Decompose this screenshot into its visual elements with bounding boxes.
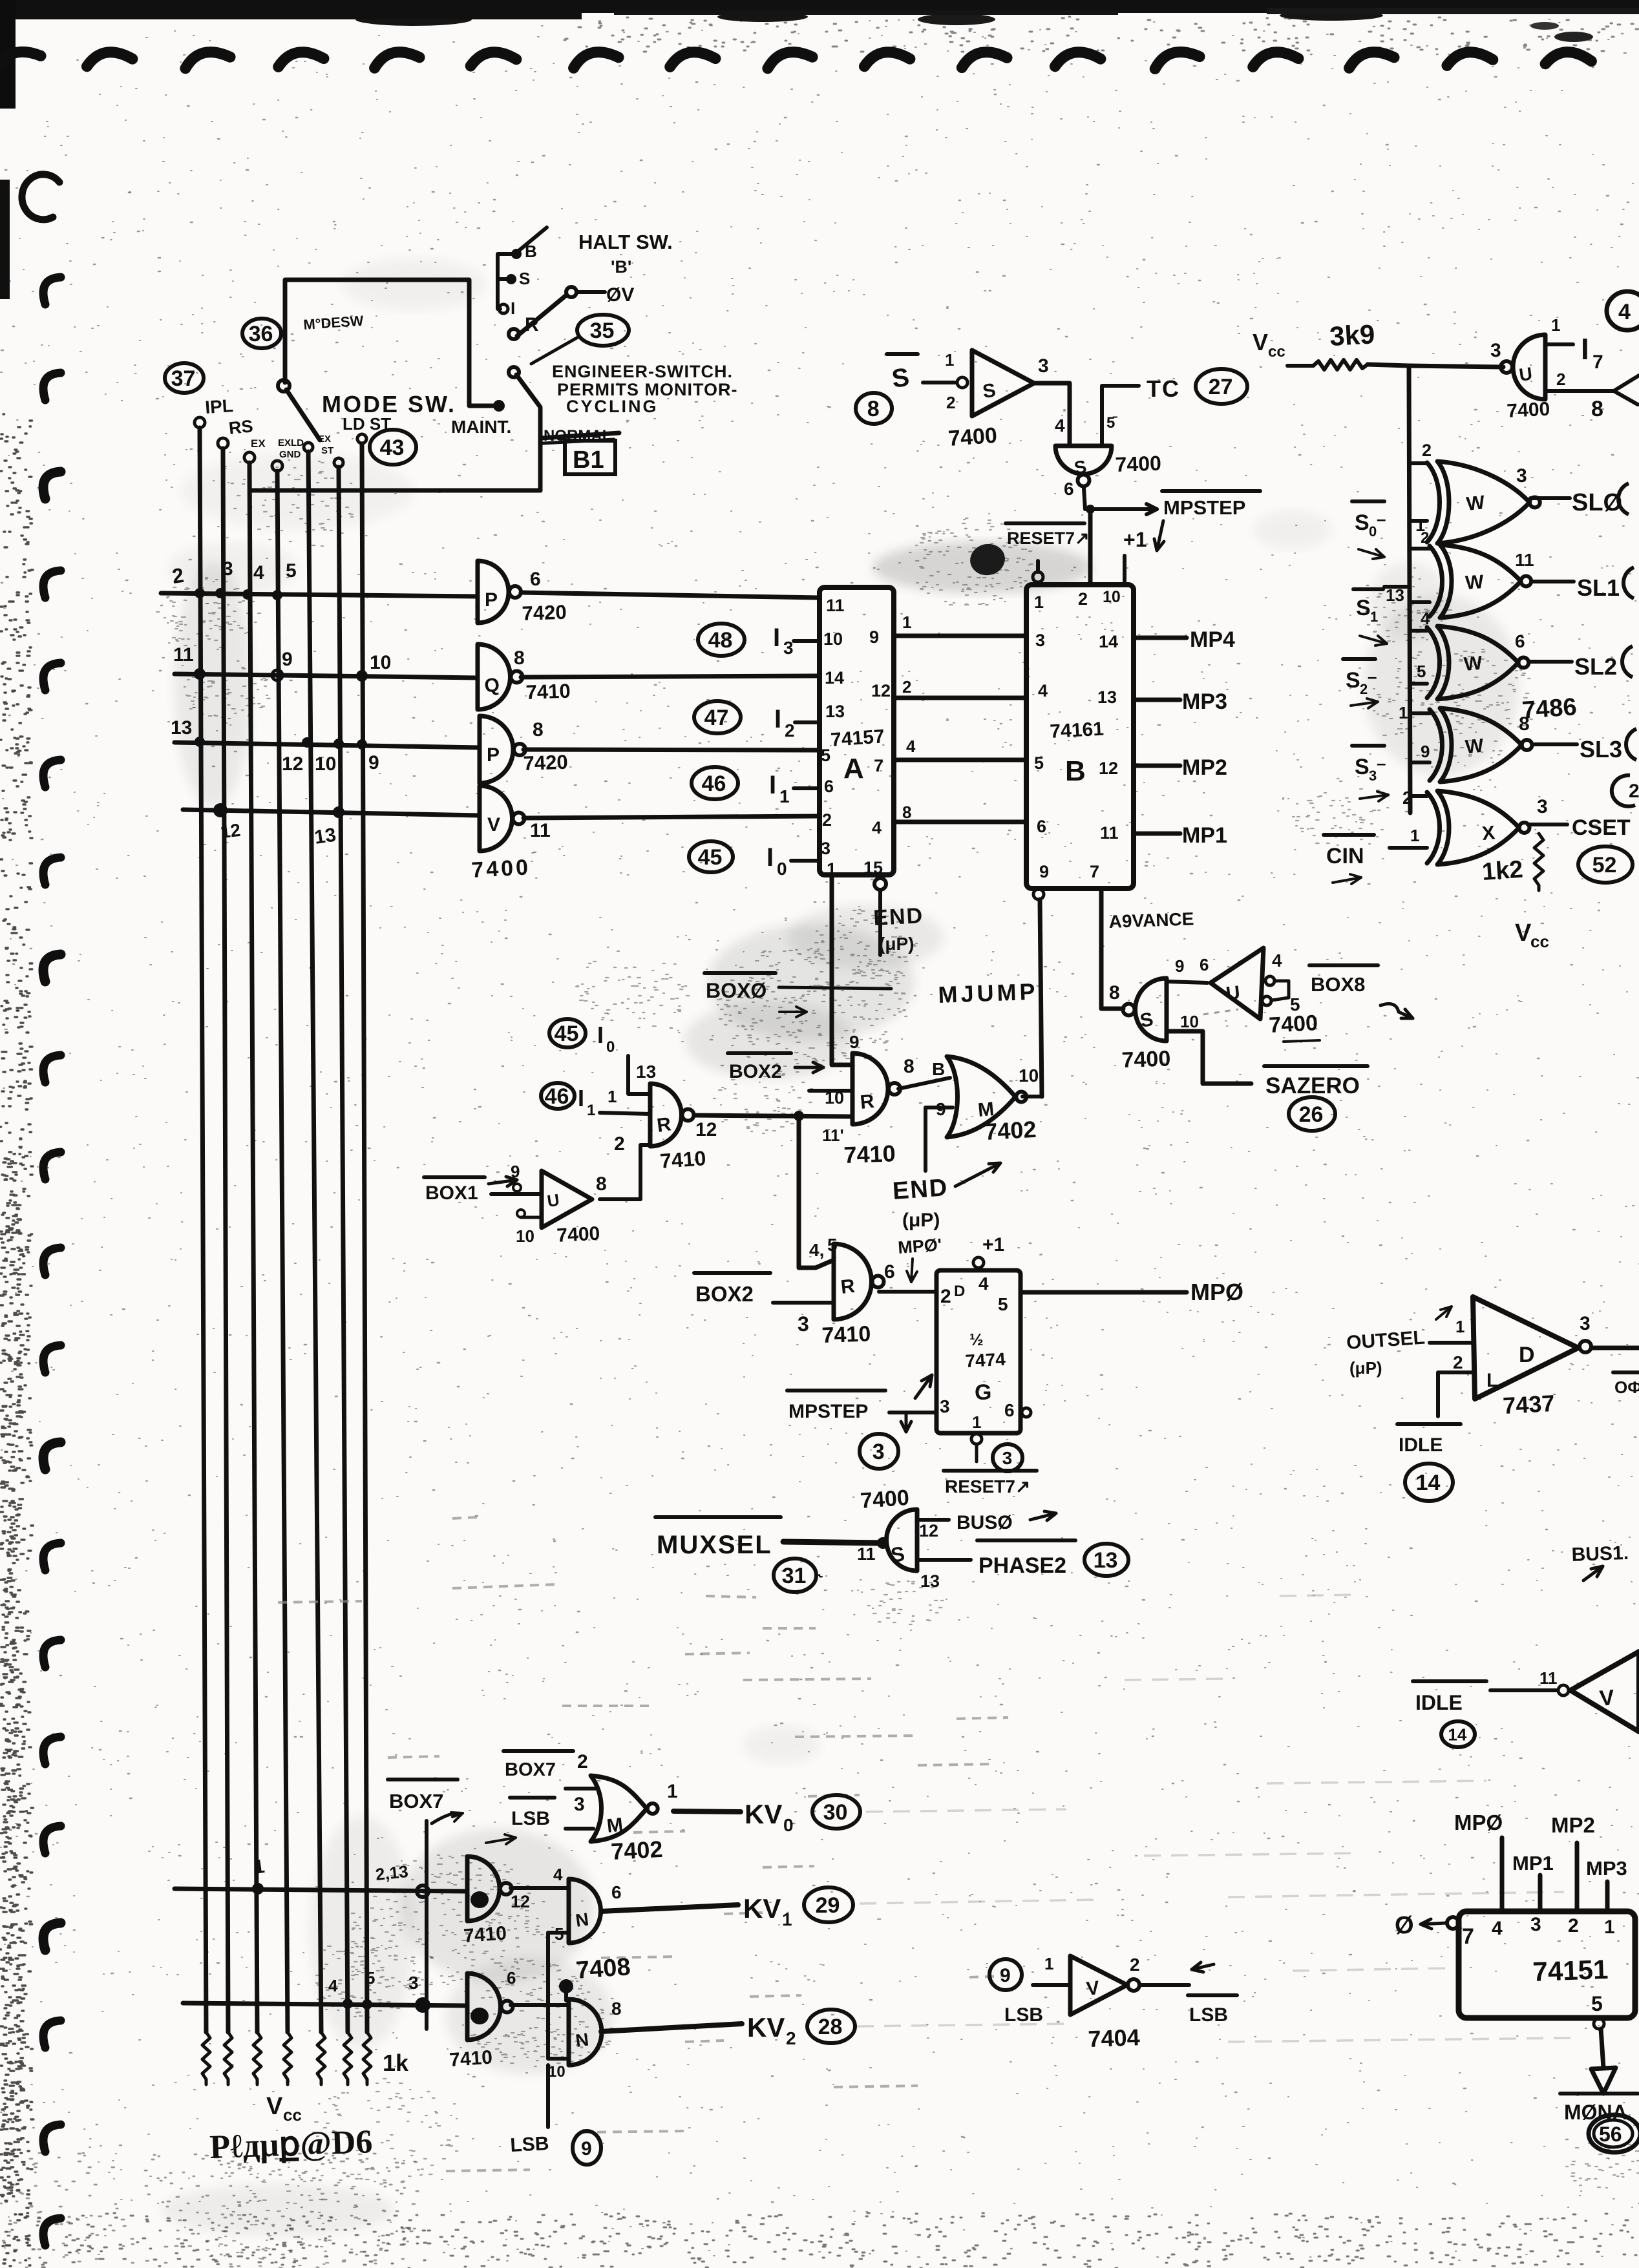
wire to 0V	[576, 290, 605, 294]
svg-text:47: 47	[704, 706, 729, 730]
svg-text:2: 2	[822, 810, 832, 830]
svg-text:9: 9	[511, 1162, 520, 1181]
wire BOX0	[779, 987, 891, 989]
svg-text:43: 43	[380, 436, 405, 460]
svg-text:5: 5	[366, 1968, 375, 1988]
svg-text:2: 2	[902, 677, 911, 697]
label RESET7 top	[1006, 521, 1084, 525]
wire MP3 down	[1605, 1882, 1610, 1911]
svg-text:5: 5	[1591, 1992, 1603, 2015]
wire 9 to V2	[1033, 1983, 1070, 1987]
wire W2 out SL1	[1533, 580, 1574, 583]
bus wire 5 vertical	[308, 452, 321, 2032]
circled ref 9 bottom	[573, 2131, 601, 2165]
wire U1 pin1 stub	[1545, 342, 1573, 346]
svg-text:–: –	[1368, 667, 1377, 686]
svg-text:N: N	[575, 1909, 590, 1931]
maint contact dot	[493, 400, 505, 412]
svg-text:W: W	[1465, 571, 1485, 594]
wire Vcc to resistor	[1287, 364, 1313, 368]
nand gate S2 7400 down	[1055, 446, 1112, 474]
label BOX2 lower	[694, 1271, 770, 1275]
svg-text:6: 6	[884, 1261, 895, 1283]
svg-text:8: 8	[611, 1999, 622, 2019]
left binder hole crescents column	[22, 174, 59, 220]
label S2bar	[1343, 657, 1375, 661]
wire maint arm down	[538, 408, 543, 490]
wire P1 to chipA pin11	[521, 593, 819, 598]
circled ref 46 mid	[541, 1083, 575, 1109]
stub W1 pin1	[1410, 519, 1427, 523]
photocopy gray smudges	[872, 541, 1092, 593]
bus contact IPL	[195, 417, 205, 428]
bus row wire 3	[174, 742, 480, 748]
circled ref 52	[1578, 846, 1633, 883]
svg-text:6: 6	[507, 1968, 516, 1988]
svg-text:7402: 7402	[610, 1836, 663, 1865]
svg-text:29: 29	[816, 1893, 840, 1918]
svg-text:7400: 7400	[556, 1223, 600, 1246]
arrow BOX0	[779, 1011, 807, 1013]
svg-text:7410: 7410	[463, 1922, 507, 1947]
bus contact 3	[244, 452, 255, 463]
svg-text:1k2: 1k2	[1481, 856, 1524, 886]
svg-text:D: D	[1519, 1343, 1535, 1367]
junction dots row1	[195, 588, 205, 598]
wire D pin2 elbow	[1438, 1372, 1473, 1416]
svg-text:12: 12	[1099, 759, 1118, 778]
svg-text:V: V	[266, 2093, 283, 2120]
svg-text:45: 45	[555, 1022, 579, 1046]
wire chipB pin13 MP3	[1134, 698, 1180, 702]
xor gate W2	[1440, 545, 1521, 618]
bottom-left corner noise	[1, 2152, 418, 2267]
svg-text:27: 27	[1209, 375, 1233, 399]
wire Q1b out	[511, 1886, 569, 1890]
junction S4	[877, 1537, 889, 1549]
svg-text:TC: TC	[1147, 375, 1180, 402]
svg-text:OФ: OФ	[1614, 1378, 1639, 1397]
svg-text:4: 4	[978, 1274, 989, 1294]
junction dots row kv2	[343, 1999, 353, 2009]
svg-text:10: 10	[1103, 588, 1121, 606]
label BOX0	[704, 971, 776, 975]
svg-text:48: 48	[708, 628, 733, 653]
svg-text:7400: 7400	[1507, 399, 1550, 422]
wire S3 bottom to SAZERO	[1167, 1031, 1251, 1084]
svg-text:BOXØ: BOXØ	[706, 979, 767, 1002]
halt switch contact I ring	[499, 304, 508, 313]
svg-text:I: I	[767, 843, 774, 872]
nand gate V1 7400	[480, 786, 513, 851]
svg-text:0: 0	[777, 859, 787, 879]
bus wire 3 vertical	[249, 463, 257, 2032]
mode switch arm wire	[286, 390, 320, 440]
svg-text:SAZЕRO: SAZЕRO	[1265, 1073, 1360, 1098]
resistor 1k2 vertical	[1534, 834, 1543, 890]
svg-text:2: 2	[1556, 370, 1565, 389]
M2 input stubs	[566, 1787, 596, 1790]
label BOX7 col	[388, 1778, 458, 1781]
svg-text:MPØ: MPØ	[1190, 1279, 1243, 1305]
svg-text:MP2: MP2	[1182, 755, 1227, 780]
arrow S2	[1351, 702, 1378, 706]
chip B pin1 bubble top	[1033, 572, 1043, 582]
svg-text:11: 11	[1100, 823, 1119, 843]
faint dash S3	[1203, 1009, 1238, 1014]
svg-text:10: 10	[315, 753, 336, 775]
svg-text:MP3: MP3	[1586, 1857, 1627, 1880]
bubble 74151 out	[1594, 2019, 1604, 2029]
svg-text:–: –	[1377, 753, 1386, 773]
svg-text:14: 14	[1448, 1725, 1466, 1744]
svg-text:CSЕT: CSЕT	[1572, 815, 1631, 840]
wire OUTSEL to D	[1430, 1341, 1473, 1345]
photocopy toner patches	[156, 460, 1639, 2268]
halt switch contact B dot	[511, 249, 522, 259]
svg-text:Ø: Ø	[1395, 1912, 1414, 1939]
wire P2 to chipA pin5	[523, 750, 819, 750]
svg-text:B: B	[1065, 755, 1086, 787]
svg-text:SLØ: SLØ	[1572, 489, 1622, 516]
label MUXSEL	[655, 1515, 781, 1519]
wire V2 out	[1140, 1983, 1189, 1987]
svg-text:3: 3	[222, 558, 233, 580]
svg-text:+1: +1	[1123, 528, 1147, 551]
svg-text:2: 2	[1453, 1352, 1463, 1372]
svg-text:LSB: LSB	[510, 2133, 550, 2156]
label PHASE2	[977, 1538, 1075, 1542]
bus contact 5	[304, 443, 313, 452]
partial circled 2 right edge	[1612, 775, 1635, 806]
svg-text:MP3: MP3	[1182, 689, 1227, 714]
wire N1 out KV1	[601, 1905, 738, 1911]
circled ref 14 D	[1405, 1464, 1453, 1501]
svg-text:4: 4	[1038, 681, 1048, 700]
circled ref 26	[1289, 1097, 1335, 1131]
svg-text:0: 0	[606, 1038, 615, 1056]
arrow BOX7	[432, 1814, 460, 1823]
label CINbar	[1324, 833, 1374, 837]
svg-text:1: 1	[1410, 826, 1419, 845]
circled ref 28	[807, 2010, 855, 2043]
svg-text:EXLD: EXLD	[278, 437, 304, 448]
top photocopy black edge band	[0, 0, 1639, 13]
wire S4 pin13	[917, 1558, 971, 1562]
svg-text:2: 2	[1130, 1955, 1140, 1975]
svg-text:ENGINEER-SWITCH.: ENGINEER-SWITCH.	[552, 362, 733, 381]
svg-text:2: 2	[577, 1751, 588, 1772]
svg-text:11: 11	[1539, 1668, 1558, 1688]
svg-text:˞: ˞	[818, 1567, 823, 1584]
svg-text:MP1: MP1	[1512, 1852, 1554, 1874]
stub W4 pins	[1410, 711, 1430, 715]
nand gate R1 7410	[650, 1084, 682, 1146]
maint switch arm wire	[516, 375, 540, 407]
svg-text:1: 1	[608, 1087, 617, 1106]
svg-text:ØV: ØV	[606, 284, 634, 306]
bus wire 4 vertical	[277, 471, 288, 2032]
svg-text:U: U	[1225, 982, 1241, 1005]
svg-text:4: 4	[1272, 950, 1282, 971]
svg-text:SL3: SL3	[1580, 736, 1622, 762]
svg-text:28: 28	[818, 2015, 843, 2039]
wire R1 out to R2	[694, 1115, 852, 1117]
svg-text:3: 3	[1580, 1313, 1591, 1334]
ring +1 G	[973, 1257, 984, 1268]
svg-text:46: 46	[702, 772, 726, 796]
svg-text:3: 3	[872, 1440, 885, 1464]
svg-text:2: 2	[786, 2028, 796, 2048]
xor gate W4	[1440, 708, 1522, 782]
svg-text:N: N	[575, 2029, 590, 2051]
svg-text:6: 6	[824, 777, 834, 796]
svg-text:1: 1	[902, 613, 911, 632]
svg-text:½: ½	[969, 1330, 984, 1349]
svg-text:14: 14	[1416, 1471, 1441, 1495]
svg-text:LSВ: LSВ	[1004, 2004, 1043, 2026]
svg-text:7400: 7400	[1268, 1011, 1318, 1038]
svg-text:MODE SW.: MODE SW.	[322, 391, 456, 417]
svg-text:56: 56	[1599, 2123, 1622, 2146]
svg-text:I: I	[774, 705, 781, 733]
svg-text:I: I	[578, 1085, 584, 1111]
svg-text:X: X	[1481, 822, 1496, 845]
svg-text:74151: 74151	[1532, 1954, 1609, 1987]
wire I1 stub	[794, 786, 819, 790]
circled ref 49 partial	[1607, 291, 1639, 330]
chip 74151 body	[1459, 1911, 1635, 2018]
label Sbar input	[887, 352, 918, 356]
pullup resistors 1k bank	[202, 2032, 210, 2084]
arrow BOX8	[1380, 1004, 1399, 1012]
svg-text:3: 3	[1035, 631, 1045, 650]
top band irregular blobs	[355, 13, 472, 26]
nand gate R3 7410	[834, 1244, 872, 1319]
arrow S1	[1360, 636, 1387, 644]
svg-text:'B': 'B'	[611, 257, 631, 277]
arrow MPSTEP up	[915, 1375, 932, 1398]
wire BOX7 vertical	[425, 1821, 428, 2029]
arrow LSB	[486, 1838, 516, 1843]
junction MPSTEP	[1086, 505, 1095, 514]
svg-text:3: 3	[1369, 768, 1377, 784]
svg-text:2: 2	[614, 1133, 625, 1155]
wire BOX2 to R3	[773, 1301, 834, 1305]
svg-text:5: 5	[286, 560, 297, 582]
wire I3 stub	[794, 639, 819, 643]
svg-text:0: 0	[783, 1815, 794, 1835]
circled ref 36	[242, 319, 281, 348]
svg-text:12: 12	[282, 753, 303, 775]
svg-text:1: 1	[945, 350, 954, 370]
svg-text:7: 7	[1462, 1924, 1474, 1949]
svg-text:W: W	[1465, 735, 1485, 758]
svg-text:D: D	[954, 1283, 965, 1300]
circled ref 27	[1196, 369, 1247, 404]
svg-text:3: 3	[940, 1396, 950, 1416]
bus wire 2 vertical	[223, 448, 228, 2032]
bus wire 7 vertical	[362, 444, 367, 2032]
svg-text:1: 1	[972, 1412, 981, 1432]
svg-text:(μP): (μP)	[879, 934, 914, 954]
wire Q2 out	[511, 2003, 569, 2007]
svg-text:KV: KV	[747, 2012, 785, 2042]
svg-text:MP4: MP4	[1190, 627, 1235, 652]
chip G pin1 bubble	[971, 1434, 982, 1444]
svg-text:7: 7	[1592, 352, 1603, 373]
svg-text:13: 13	[920, 1571, 940, 1591]
wire A4 to B6	[894, 820, 1026, 824]
svg-text:3: 3	[1530, 1914, 1541, 1935]
svg-text:KV: KV	[743, 1893, 781, 1924]
svg-text:7474: 7474	[965, 1349, 1006, 1371]
svg-text:13: 13	[1097, 688, 1117, 707]
svg-text:A9VANCЕ: A9VANCЕ	[1108, 908, 1194, 932]
faint ghost dashes	[706, 1596, 756, 1597]
wire chipB pin7 down ADVANCE	[1101, 888, 1123, 1009]
svg-text:MUXSEL: MUXSEL	[657, 1531, 772, 1559]
chip A 74157 body	[819, 587, 894, 875]
label MONA	[1560, 2092, 1638, 2095]
svg-text:S: S	[1346, 668, 1360, 693]
svg-text:10: 10	[1180, 1012, 1199, 1031]
svg-text:3: 3	[1038, 355, 1049, 377]
label BOX1	[424, 1175, 485, 1179]
svg-text:4,: 4,	[809, 1240, 824, 1260]
svg-text:11: 11	[826, 596, 845, 615]
svg-text:11: 11	[530, 820, 551, 841]
svg-text:2: 2	[1422, 441, 1432, 460]
arrow MP0p down	[911, 1259, 913, 1282]
svg-text:9: 9	[869, 627, 879, 647]
label IDLE D	[1397, 1422, 1461, 1426]
svg-text:9: 9	[849, 1032, 860, 1052]
wire chipB pin10 up	[1123, 556, 1126, 585]
wire chipB pin11 MP1	[1134, 832, 1180, 836]
svg-text:4: 4	[253, 562, 264, 583]
label S1bar	[1353, 587, 1383, 591]
svg-text:EX: EX	[251, 437, 266, 450]
svg-text:1k: 1k	[383, 2050, 409, 2076]
svg-text:MP2: MP2	[1551, 1813, 1595, 1837]
svg-text:W: W	[1465, 492, 1486, 515]
wire contact B up	[516, 227, 547, 253]
label LSB right	[1188, 1993, 1237, 1997]
svg-text:74161: 74161	[1050, 719, 1105, 742]
svg-text:S: S	[1356, 596, 1371, 620]
svg-text:V: V	[1515, 919, 1532, 947]
wire S2 out to MPSTEP node	[1084, 488, 1085, 509]
svg-text:13: 13	[1094, 1548, 1118, 1573]
svg-text:9: 9	[581, 2138, 592, 2159]
svg-text:7437: 7437	[1502, 1390, 1555, 1419]
svg-text:END: END	[872, 903, 924, 930]
wire A9 to B3	[894, 634, 1026, 638]
svg-text:MAINT.: MAINT.	[451, 417, 511, 437]
svg-text:26: 26	[1299, 1102, 1324, 1127]
svg-text:1: 1	[667, 1781, 678, 1802]
chip B 74161 body	[1026, 585, 1134, 888]
arrow LSB back	[1192, 1964, 1214, 1969]
svg-text:7410: 7410	[525, 680, 571, 704]
circled ref 30	[812, 1795, 860, 1829]
svg-text:W: W	[1463, 653, 1484, 675]
svg-text:SL1: SL1	[1577, 574, 1620, 601]
wire I0 to R1	[628, 1056, 650, 1094]
svg-text:MP1: MP1	[1182, 823, 1227, 848]
wire IDLE to V3	[1490, 1688, 1558, 1692]
svg-text:MJUMP: MJUMP	[938, 978, 1039, 1008]
wire Q1 to chipA pin14	[521, 676, 819, 677]
arrow CIN	[1333, 877, 1361, 883]
svg-text:2: 2	[1078, 589, 1088, 609]
svg-text:13: 13	[636, 1062, 656, 1082]
bus row wire kv2	[183, 2003, 467, 2006]
svg-text:13: 13	[313, 824, 337, 848]
svg-text:8: 8	[514, 647, 525, 669]
svg-text:5: 5	[1417, 662, 1426, 681]
svg-text:13: 13	[825, 702, 845, 721]
arrow S0	[1359, 549, 1384, 557]
wire I1 to R1	[600, 1113, 650, 1114]
svg-text:7: 7	[1090, 862, 1099, 881]
svg-text:7400: 7400	[860, 1486, 910, 1513]
svg-text:MPØ: MPØ	[1454, 1811, 1503, 1834]
xor gate W1	[1437, 461, 1530, 543]
wire S1 out	[1035, 383, 1070, 446]
svg-text:30: 30	[823, 1800, 848, 1825]
stub X pin2	[1410, 794, 1427, 798]
svg-text:ВUSØ: ВUSØ	[957, 1512, 1013, 1533]
circled ref 31	[774, 1559, 816, 1592]
bus contact 4	[272, 461, 282, 471]
fork wire right edge	[1614, 375, 1639, 404]
bus row wire 2	[174, 674, 478, 678]
svg-text:GND: GND	[279, 449, 301, 460]
svg-text:BOX7: BOX7	[389, 1790, 443, 1812]
svg-text:9: 9	[1000, 1965, 1011, 1986]
bottom margin toner noise	[4, 2213, 1636, 2268]
wire MP2 down	[1575, 1843, 1580, 1911]
bus wire 1 vertical	[200, 428, 206, 2032]
svg-text:7486: 7486	[1521, 693, 1578, 724]
svg-text:5: 5	[821, 746, 830, 765]
svg-text:8: 8	[1519, 713, 1530, 735]
bus contact 7	[357, 434, 366, 443]
svg-text:–: –	[1377, 509, 1386, 529]
svg-text:PHASЕ2: PHASЕ2	[978, 1553, 1066, 1578]
halt switch contact S dot	[506, 274, 516, 284]
svg-text:4: 4	[872, 818, 882, 837]
wire A12 to B4	[894, 696, 1026, 700]
svg-text:9: 9	[1175, 956, 1184, 976]
svg-text:6: 6	[1515, 631, 1525, 651]
label OUT partial	[1613, 1370, 1639, 1374]
svg-text:ВUS1.: ВUS1.	[1571, 1542, 1629, 1566]
svg-text:ST: ST	[321, 445, 333, 456]
circled ref 14 V	[1441, 1721, 1475, 1747]
svg-text:L: L	[1486, 1370, 1498, 1391]
wire M pin9 to END	[925, 1108, 953, 1171]
svg-text:7410: 7410	[449, 2046, 493, 2071]
svg-text:A: A	[843, 753, 864, 784]
svg-text:7400: 7400	[1115, 452, 1161, 476]
halt sw ov contact ring	[566, 287, 576, 297]
svg-text:7400: 7400	[471, 855, 531, 883]
svg-text:74157: 74157	[830, 726, 885, 751]
svg-text:6: 6	[1004, 1400, 1015, 1420]
